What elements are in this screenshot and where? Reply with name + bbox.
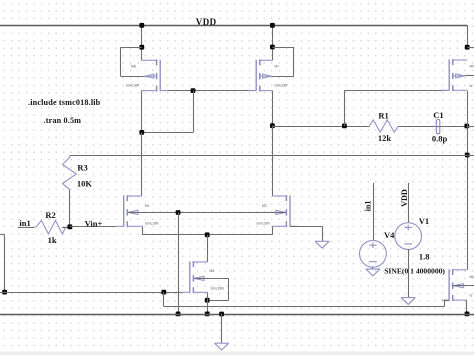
svg-text:10K: 10K [77, 179, 93, 189]
transistor M2 (NMOS) [273, 195, 298, 227]
wire M3 bulk loop to source [194, 278, 229, 300]
wire bias branch down [163, 292, 165, 307]
node Vin+ junction [68, 224, 73, 229]
svg-text:0.8p: 0.8p [432, 133, 448, 143]
resistor R3 [63, 155, 77, 227]
svg-text:in1: in1 [19, 218, 30, 228]
node bulk-ground junction [176, 210, 181, 215]
svg-text:VDD: VDD [400, 189, 409, 207]
node tail junction [205, 232, 210, 237]
wire M8 bulk loop [121, 47, 146, 76]
wire C1 to output rail [440, 126, 467, 128]
transistor M1 (NMOS) [116, 195, 142, 227]
node M8 source junction [139, 45, 144, 50]
wire node B to R1 [272, 126, 369, 128]
node M3 ground rail junction [205, 312, 210, 317]
wire V4 top lead [373, 183, 375, 241]
resistor R1 [369, 120, 398, 132]
wire M7 bulk loop [272, 47, 294, 77]
svg-text:V1: V1 [419, 216, 429, 226]
wire gate bias M8 to M7 [160, 90, 256, 92]
svg-text:M2: M2 [262, 204, 267, 208]
node bias line A-B junction [161, 290, 166, 295]
node A M8 drain junction [139, 130, 144, 135]
resistor R2 [34, 220, 70, 234]
wire M3 source to ground rail [207, 292, 209, 314]
svg-text:12k: 12k [378, 133, 392, 143]
transistor M7 (PMOS) [249, 59, 273, 91]
svg-text:.tran 0.5m: .tran 0.5m [44, 116, 82, 125]
node VDD-M7 junction [270, 23, 275, 28]
node M3 source junction [205, 298, 210, 303]
ground at M2 gate [315, 241, 329, 248]
node bulk line ground rail junction [176, 312, 181, 317]
voltage source V1 [395, 223, 422, 250]
wire M7 source from VDD [272, 25, 274, 60]
svg-text:M7: M7 [275, 65, 280, 69]
wire M8 drain down [141, 91, 143, 133]
wire M6 source to ground rail [466, 300, 468, 314]
node gate bias junction [191, 88, 196, 93]
wire M2 gate to ground [290, 227, 323, 242]
svg-text:1.8: 1.8 [419, 252, 430, 262]
svg-text:M3: M3 [210, 269, 215, 273]
wire Vin+ to M1 gate [70, 226, 116, 228]
svg-text:.include tsmc018.lib: .include tsmc018.lib [28, 98, 101, 107]
node VDD-M8 junction [139, 23, 144, 28]
svg-text:V4: V4 [384, 230, 395, 240]
ground at V4 [366, 269, 380, 276]
wire M5 gate [344, 90, 449, 126]
svg-text:R2: R2 [45, 210, 55, 220]
wire R2 to Vin+ node [62, 227, 70, 229]
svg-text:ts: ts [470, 84, 473, 88]
svg-text:SINE(0 1 4000000): SINE(0 1 4000000) [384, 266, 445, 275]
wire M6 bulk stub to edge [453, 285, 474, 287]
ground bottom center [215, 343, 229, 350]
svg-text:tsmc18N: tsmc18N [145, 221, 159, 225]
wire M1 bulk to M2 bulk [128, 212, 286, 214]
wire V4 bottom lead [372, 267, 374, 269]
wire output stub to right edge [467, 126, 474, 128]
svg-text:R3: R3 [77, 162, 87, 172]
node output-C1 junction [464, 124, 469, 129]
wire V1 bottom lead [408, 249, 410, 297]
wire node B down to M2 drain [272, 126, 274, 196]
wire M8 source from VDD [141, 25, 143, 60]
svg-text:M1: M1 [145, 204, 150, 208]
wire output rail vertical [467, 91, 469, 270]
wire gate bias down to M8 drain node [142, 91, 194, 133]
svg-text:M6: M6 [470, 275, 474, 279]
voltage source V4 [360, 240, 387, 267]
ground at V1 [401, 298, 415, 305]
wire V1 top lead [408, 183, 410, 223]
wire R1 to C1 [399, 126, 437, 128]
wire bulk line down to ground rail [178, 213, 180, 314]
svg-text:C1: C1 [433, 110, 443, 120]
svg-text:R1: R1 [378, 111, 388, 121]
wire VDD rail right corner down to M5 [467, 25, 469, 47]
node M5 source junction [465, 45, 470, 50]
wire VDD rail [0, 25, 467, 27]
wire feedback line R3 top [70, 155, 474, 157]
wire bias line B to M6 gate [164, 300, 449, 307]
svg-text:VDD: VDD [196, 17, 217, 27]
transistor M5 (PMOS) [442, 59, 468, 91]
node B first-stage output junction [270, 123, 275, 128]
wire in1 to R2 [18, 227, 34, 229]
wire ground rail [0, 314, 474, 316]
transistor M8 (PMOS) [142, 59, 168, 91]
wire diff pair common source [142, 226, 273, 235]
svg-text:tsmc18N: tsmc18N [257, 221, 271, 225]
svg-text:tsmc18P: tsmc18P [275, 84, 289, 88]
svg-text:ts: ts [470, 294, 473, 298]
wire M7 drain down [272, 91, 274, 126]
transistor M3 (NMOS) [182, 261, 207, 293]
node output-R3 feedback junction [465, 153, 470, 158]
node M6 ground rail junction [465, 312, 470, 317]
capacitor C1 [435, 120, 442, 134]
wire ground stem [221, 314, 223, 343]
svg-text:tsmc18N: tsmc18N [211, 287, 225, 291]
node M5 gate junction [342, 124, 347, 129]
wire bias entering left edge [0, 235, 5, 293]
wire node A down to M1 drain [141, 132, 143, 196]
svg-text:tsmc18P: tsmc18P [126, 84, 140, 88]
svg-text:in1: in1 [364, 200, 373, 211]
svg-text:1k: 1k [48, 235, 57, 245]
node M7 source junction [270, 45, 275, 50]
transistor M6 (NMOS) [442, 269, 467, 301]
node left edge junction [2, 290, 7, 295]
svg-text:Vin+: Vin+ [85, 218, 103, 228]
wire bias line A to M3 gate [0, 292, 182, 294]
svg-text:M8: M8 [131, 65, 136, 69]
svg-text:M5: M5 [470, 65, 474, 69]
node ground rail center junction [219, 312, 224, 317]
wire M5 bulk stub to edge [465, 48, 474, 76]
wire tail node down to M3 drain [207, 235, 209, 262]
